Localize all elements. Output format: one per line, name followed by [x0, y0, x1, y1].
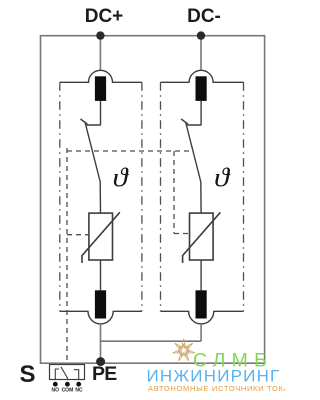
linkage dashed vertical left (to remote contact) [66, 148, 68, 365]
wire module 2 down to PE bus [200, 324, 202, 341]
switch SW2 blade [186, 122, 201, 181]
terminal COM [65, 382, 70, 387]
remote contact NO post [55, 369, 59, 380]
svg-text:DC+: DC+ [85, 6, 124, 27]
varistor RV1 body [89, 213, 113, 260]
switch SW2 fixed contact [181, 119, 201, 125]
module 1 plug-in boundary right (dash-dot) [141, 82, 143, 311]
wire DC- drop to module [200, 36, 202, 71]
svg-text:ϑ: ϑ [113, 163, 129, 192]
node DC+ junction [96, 31, 104, 39]
svg-text:АВТОНОМНЫЕ ИСТОЧНИКИ ТОКА: АВТОНОМНЫЕ ИСТОЧНИКИ ТОКА [148, 384, 285, 393]
varistor RV1 diagonal [82, 212, 120, 263]
enclosure outer box [41, 36, 265, 364]
remote contact blade (COM) [61, 367, 68, 380]
terminal NC [76, 382, 81, 387]
module 2 bottom edge with plug contact arc [161, 311, 244, 324]
module 2 top edge with plug contact arc [161, 70, 244, 82]
linkage dashed vertical right [173, 151, 175, 234]
thermal disconnect fuse F3 (module 2 top) [196, 76, 207, 101]
watermark star emblem [173, 339, 195, 361]
module 2 plug-in boundary right (dash-dot) [243, 82, 245, 311]
switch SW1 fixed contact [81, 119, 101, 125]
varistor RV2 diagonal [183, 212, 221, 263]
svg-text:S: S [20, 361, 36, 388]
node PE junction [96, 357, 105, 366]
linkage dashed stub to varistor RV2 [174, 233, 190, 235]
svg-text:ϑ: ϑ [214, 163, 230, 192]
linkage dashed horizontal (thermal trip to switches) [67, 150, 192, 152]
wire DC+ drop to module [99, 36, 101, 71]
remote signal contact box [50, 365, 85, 380]
module 1 top edge with plug contact arc [60, 70, 142, 82]
module 2 plug-in boundary left (dash-dot) [160, 82, 162, 311]
wire fuse F1 to switch [100, 101, 102, 125]
wire fuse F3 to switch [200, 101, 202, 125]
thermal disconnect fuse F4 (module 2 bottom) [196, 290, 207, 318]
wire module 1 to PE node [100, 324, 102, 361]
thermal disconnect fuse F1 (module 1 top) [95, 76, 106, 101]
wire switch SW2 to varistor RV2 [200, 181, 202, 213]
terminal NO [53, 382, 58, 387]
remote contact NC post [74, 370, 79, 380]
wire switch SW1 to varistor RV1 [99, 181, 101, 213]
thermal disconnect fuse F2 (module 1 bottom) [95, 290, 106, 318]
wire PE bus horizontal [101, 340, 202, 342]
node DC- junction [197, 31, 205, 39]
module 1 bottom edge with plug contact arc [60, 311, 142, 324]
wire varistor RV1 to bottom fuse [100, 260, 102, 290]
svg-text:ИНЖИНИРИНГ: ИНЖИНИРИНГ [147, 367, 281, 386]
svg-text:PE: PE [92, 363, 117, 385]
switch SW1 blade [85, 122, 100, 181]
svg-text:DC-: DC- [187, 6, 221, 27]
svg-text:NC: NC [75, 388, 83, 394]
svg-text:COM: COM [62, 388, 74, 394]
module 1 plug-in boundary left (dash-dot) [59, 82, 61, 311]
wire varistor RV2 to bottom fuse [200, 260, 202, 290]
svg-text:NO: NO [52, 388, 60, 394]
linkage dashed stub to varistor RV1 [67, 234, 89, 236]
varistor RV2 body [190, 213, 214, 260]
